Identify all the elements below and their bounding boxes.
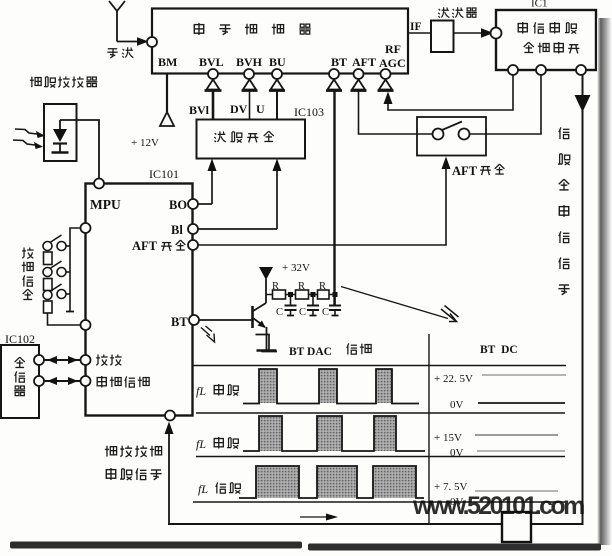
svg-text:BT DC: BT DC (480, 344, 518, 356)
label 时钟脉冲 (97, 376, 149, 387)
svg-text:BU: BU (269, 55, 286, 69)
svg-text:BO: BO (169, 198, 187, 212)
vertical label 视频全电视信号 (558, 127, 570, 294)
key switch S3 (43, 284, 70, 300)
vertical label 按键输入 (22, 248, 34, 300)
transistor Q1 (253, 303, 267, 328)
resistor R1 (273, 290, 286, 299)
wire MPU AFT-switch pin to AFT switch box with up arrow (198, 169, 446, 245)
svg-text:www.520101.com: www.520101.com (412, 492, 584, 520)
page edge shadow bottom left (10, 542, 302, 549)
svg-text:IC101: IC101 (149, 167, 179, 181)
annotation arrow from RC network to BT DC column (341, 287, 448, 319)
open arrow annotation near BT node (201, 326, 215, 342)
BU pin arrow (269, 80, 285, 91)
label AFT 开关 (452, 164, 504, 178)
svg-text:BVL: BVL (199, 55, 224, 69)
video output arrowhead (575, 95, 591, 112)
memory box 存储器 (1, 345, 39, 418)
svg-text:Bl: Bl (171, 223, 183, 237)
junction node 1 (288, 292, 293, 297)
antenna wire arrowhead (137, 37, 149, 45)
key resistor block 1 (44, 252, 53, 265)
svg-text:C: C (276, 307, 283, 318)
wire IF tuner to filter (408, 32, 431, 34)
capacitor C3 (329, 297, 341, 316)
svg-text:C: C (322, 307, 329, 318)
key switch common wire to MPU (70, 228, 81, 311)
waveform row1 pulse fills (259, 369, 392, 403)
svg-text:R: R (298, 281, 305, 292)
svg-text:DV: DV (230, 102, 248, 116)
wire key chain to MPU pin (48, 313, 81, 325)
+32V supply arrow (259, 267, 273, 280)
AFT pin arrow (351, 80, 367, 91)
MPU box IC101 (86, 167, 193, 416)
row separator 2 (196, 456, 565, 458)
label 同步信号 (106, 468, 161, 480)
key switch S1 (43, 235, 70, 251)
svg-text:BT DAC: BT DAC (289, 346, 332, 358)
junction node 3 (333, 292, 338, 297)
wire IC1 left bottom terminal down-left already drawn; bottom feedback wire (168, 523, 584, 525)
row separator 3 (193, 501, 565, 503)
svg-text:AFT: AFT (132, 239, 158, 253)
page edge shadow bottom right (308, 544, 601, 551)
waveform chart header line (193, 365, 566, 367)
svg-text:RF: RF (385, 42, 401, 56)
resistor chain wire (266, 294, 335, 296)
waveform row2 pulse fills (259, 416, 396, 451)
svg-text:0V: 0V (450, 399, 464, 411)
tuner bottom pin terminals (208, 69, 391, 79)
wire BVL to band switch (212, 92, 215, 120)
row separator 1 (196, 412, 565, 414)
svg-text:0V: 0V (450, 447, 464, 459)
wire BO to band switch with up arrow (198, 170, 212, 204)
tuner box U-tuner 电子调谐器 (152, 9, 408, 74)
svg-text:BVH: BVH (236, 55, 263, 69)
BVH pin arrow (242, 80, 258, 91)
wire tuner AFT pin through AFT switch to IC1 (359, 75, 542, 134)
video output wire from IC1 down (582, 75, 584, 524)
svg-text:IC1: IC1 (531, 0, 548, 10)
label 如接收到 (105, 446, 162, 457)
key resistor block 2 (44, 279, 53, 291)
svg-text:AGC: AGC (379, 56, 406, 70)
wire IR receiver to MPU (60, 120, 99, 178)
svg-text:IC103: IC103 (294, 105, 324, 119)
RF AGC pin arrow (378, 80, 394, 91)
IR receiver box (44, 104, 77, 161)
svg-text:C: C (299, 307, 306, 318)
ground (257, 349, 277, 352)
scan direction arrow (300, 516, 330, 518)
BVL pin arrow (205, 80, 222, 91)
antenna (109, 1, 146, 42)
svg-text:+ 12V: + 12V (131, 137, 159, 149)
svg-text:BT: BT (171, 315, 188, 329)
clock wire with arrows (44, 380, 81, 382)
label 数据 (96, 355, 121, 366)
node: tuner antenna input terminal (147, 37, 157, 47)
svg-text:fL: fL (198, 482, 208, 496)
svg-text:BVl: BVl (189, 103, 210, 117)
band switch box 波段开关 (197, 120, 306, 159)
filter box 滤波器 (431, 7, 477, 52)
wire BM to +12V (166, 74, 168, 112)
memory box terminals (34, 355, 44, 365)
wire IC1 AGC feedback to tuner RF AGC pin (388, 75, 513, 110)
wire BU to band switch (276, 92, 278, 120)
svg-text:+ 32V: + 32V (282, 262, 310, 274)
pulse glyph (256, 335, 278, 352)
svg-text:BT: BT (331, 55, 347, 69)
BT pin arrow (326, 80, 342, 91)
label 红外接收器 (30, 77, 97, 88)
svg-text:BM: BM (158, 55, 177, 69)
waveform row3 pulse fills (256, 466, 416, 498)
svg-text:MPU: MPU (90, 197, 121, 212)
capacitor C2 (307, 297, 319, 316)
key resistor block 3 (44, 301, 53, 313)
sync feedback up arrow into MPU (168, 434, 170, 524)
wire tuner BT pin down to RC network (333, 92, 335, 306)
svg-text:R: R (272, 281, 279, 292)
IC1 video IF processing unit box 图像中频处理单元 (496, 0, 596, 70)
wire BVH to band switch (249, 92, 251, 120)
ground bar in IR box (52, 151, 69, 153)
wire filter to IC1 with arrowhead (454, 32, 484, 34)
capacitor C1 (285, 297, 297, 316)
svg-text:fL: fL (196, 384, 206, 398)
IC1 terminals (491, 28, 587, 76)
photodiode D1 (53, 120, 67, 152)
wire +32V to resistor chain (265, 279, 267, 303)
data bus wire with arrows (44, 359, 81, 361)
waveform row2 trace (243, 416, 425, 451)
waveform row3 trace (239, 466, 424, 498)
svg-text:IF: IF (410, 21, 422, 33)
page edge shadow right (597, 18, 612, 545)
wire emitter to ground (266, 327, 268, 350)
svg-text:R: R (319, 281, 326, 292)
svg-text:U: U (256, 102, 265, 116)
IR input arrows (13, 129, 41, 146)
chart column divider (428, 334, 430, 523)
svg-text:IC102: IC102 (5, 332, 35, 346)
label 天线 (107, 47, 133, 58)
svg-text:fL: fL (196, 437, 206, 451)
AFT switch box (417, 117, 486, 156)
wire MPU BT pin to transistor base (199, 319, 252, 321)
key switch S2 (43, 261, 70, 277)
wire B1 to band switch with up arrow (198, 170, 277, 229)
+12V supply arrow (160, 112, 174, 126)
junction node 2 (311, 292, 316, 297)
resistor R2 (296, 290, 309, 299)
resistor R3 (318, 290, 330, 299)
svg-text:+ 15V: + 15V (434, 432, 462, 444)
waveform row1 trace (243, 369, 419, 404)
svg-text:AFT: AFT (452, 164, 478, 178)
svg-text:AFT: AFT (352, 55, 376, 69)
svg-text:+ 22. 5V: + 22. 5V (434, 373, 473, 385)
MPU pin terminals (81, 179, 200, 421)
connector box on bottom wire (502, 512, 531, 542)
